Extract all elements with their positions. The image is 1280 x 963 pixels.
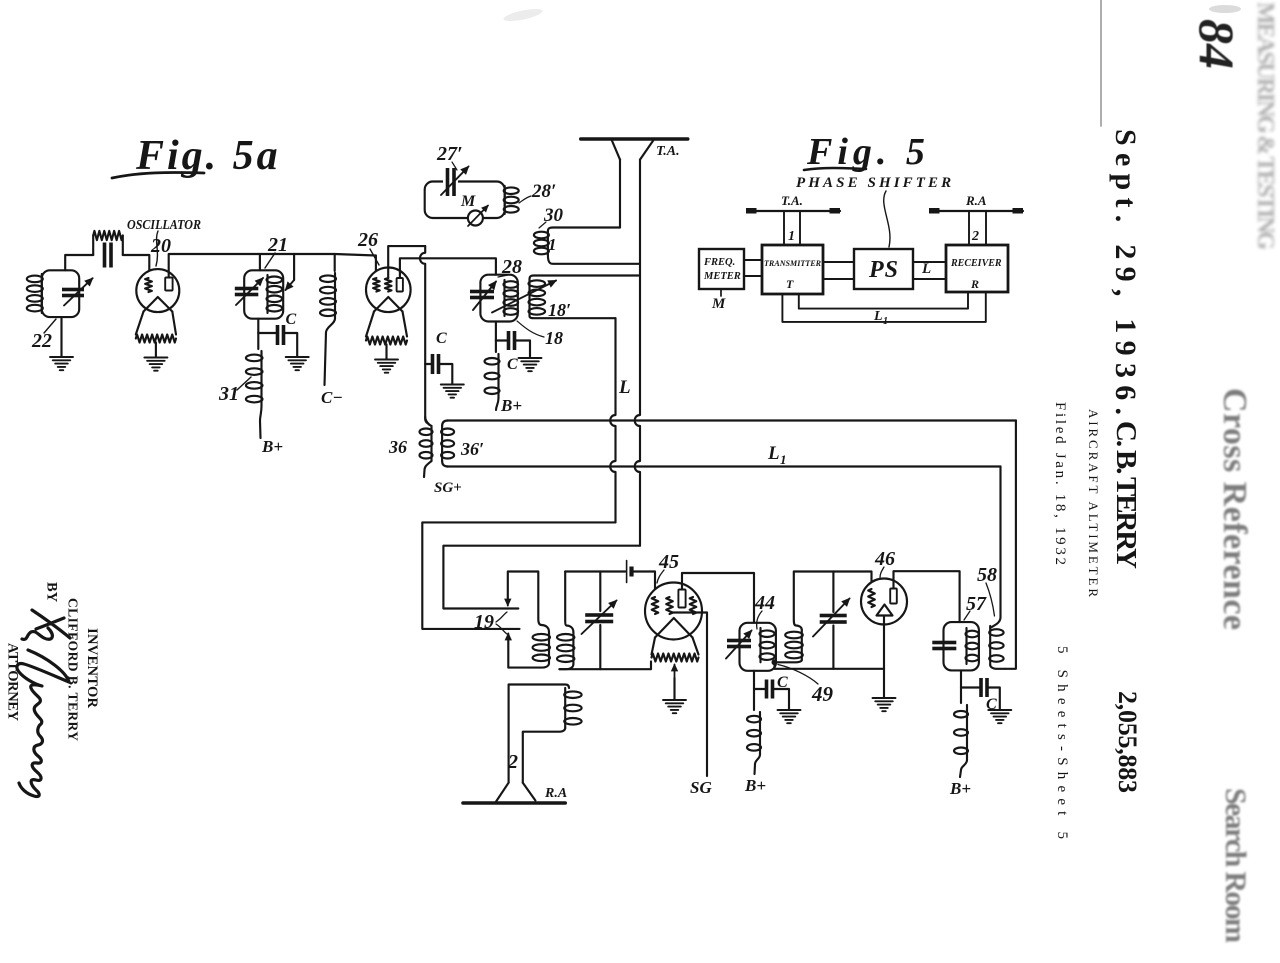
svg-text:L: L	[618, 377, 631, 398]
wire coil57 to B+	[960, 760, 967, 777]
tube 20 filament	[144, 297, 173, 312]
coil 30	[534, 231, 549, 255]
wire coil30 bottom	[548, 255, 640, 264]
wire heater20 to ground	[155, 343, 157, 358]
svg-text:B+: B+	[744, 776, 766, 795]
ground at C28	[519, 358, 542, 371]
wire capC21 to ground	[284, 333, 298, 357]
svg-text:R.A: R.A	[965, 193, 987, 208]
ground at C21	[286, 357, 309, 370]
tuned box 21	[244, 270, 283, 318]
tuning cap stage1 arrow	[582, 601, 617, 635]
label L in Fig5	[921, 261, 931, 277]
label C at 21	[286, 311, 297, 328]
coil 58	[989, 626, 1003, 665]
tube 20 plate	[165, 278, 172, 291]
tube 20 heater leads	[136, 312, 176, 335]
wire capC28 to ground	[515, 341, 531, 358]
transmitter text	[764, 258, 821, 291]
label B+ at 44	[744, 776, 766, 795]
label C at 26	[436, 330, 447, 347]
svg-text:METER: METER	[703, 271, 741, 282]
battery cell	[627, 561, 634, 583]
tuning capacitor stage1	[585, 613, 613, 623]
wire choke top	[294, 254, 335, 271]
text BY	[44, 582, 60, 603]
svg-text:B+: B+	[949, 779, 971, 798]
tube 45 grid 1	[652, 597, 659, 614]
variable capacitor in 44	[727, 639, 751, 649]
svg-text:OSCILLATOR: OSCILLATOR	[127, 217, 201, 232]
leader PHASE SHIFTER	[884, 191, 890, 247]
tuning capacitor stage1 wire	[599, 572, 601, 612]
wire coil2 hook	[509, 685, 569, 783]
svg-text:CLIFFORD B. TERRY: CLIFFORD B. TERRY	[66, 598, 81, 741]
leader 18	[517, 321, 544, 337]
PS box	[854, 249, 913, 289]
tube 45 heater leads	[652, 638, 699, 655]
antenna T.A. bar	[581, 137, 688, 140]
wiper arrow on heater 45	[672, 665, 678, 679]
antenna R.A. bar	[463, 801, 565, 805]
label C-	[321, 388, 343, 407]
wire box44 to B+ coil	[753, 689, 755, 710]
wire screen line down with hop	[420, 246, 425, 364]
svg-text:84: 84	[1189, 19, 1245, 69]
wire grid line to battery	[565, 570, 625, 572]
tube 45 grid 2	[666, 597, 673, 614]
wire tube 20 plate up	[169, 254, 260, 278]
antenna left lead	[619, 160, 621, 228]
leader 57	[964, 611, 970, 620]
tuned box 57	[944, 622, 979, 670]
bus stage2	[775, 668, 885, 670]
stamp Cross Reference	[1216, 388, 1253, 630]
label 44	[754, 592, 775, 614]
svg-text:Search Room: Search Room	[1219, 788, 1252, 943]
capacitor C at 26	[431, 354, 441, 374]
svg-text:C: C	[286, 311, 297, 328]
mini R.A. leads	[969, 211, 986, 245]
title underline Fig 5	[804, 168, 866, 170]
svg-text:2: 2	[507, 751, 518, 773]
svg-text:SG: SG	[690, 778, 712, 797]
label 45	[658, 551, 679, 573]
svg-text:26: 26	[357, 229, 378, 251]
label C at 28	[507, 356, 518, 373]
tube 26 plate	[397, 278, 403, 292]
label 21	[267, 234, 288, 256]
tuning capacitor stage2	[820, 614, 847, 624]
leader 58	[986, 583, 995, 616]
wire gridleak to tube20	[123, 255, 150, 278]
wire coil49 bottom to dot	[775, 660, 802, 662]
coupling arrow 28-18'	[492, 281, 556, 313]
title AIRCRAFT ALTIMETER	[1086, 409, 1101, 597]
tube 26 grid 1	[373, 278, 380, 292]
tube 46 grid	[868, 589, 875, 607]
leader OSCILLATOR	[156, 231, 158, 266]
svg-text:1: 1	[780, 452, 787, 467]
svg-text:1: 1	[883, 316, 888, 327]
wire L1 bus	[447, 465, 1001, 467]
label 58	[977, 564, 997, 586]
receiver text	[950, 258, 1002, 291]
wire T.A. bend to upper stub	[443, 546, 640, 609]
L1 outer loop	[782, 292, 985, 322]
tuning cap stage1 lower wire	[599, 625, 601, 669]
title Fig. 5a	[135, 133, 281, 179]
svg-text:19: 19	[474, 611, 494, 633]
tube 26 heater resistor	[366, 337, 407, 345]
PS text	[868, 257, 899, 283]
svg-text:Filed Jan. 18, 1932: Filed Jan. 18, 1932	[1052, 402, 1068, 565]
wire tube46 cathode	[883, 616, 885, 698]
wire coil2 bottom	[523, 728, 565, 783]
leader 27 prime	[452, 162, 457, 170]
wire tank22 top	[65, 255, 93, 270]
capacitor C at 21	[276, 325, 286, 345]
tube 26 grid 2	[385, 278, 392, 292]
ground below 22	[50, 357, 73, 370]
tube 45 envelope	[645, 583, 702, 640]
coil in 28	[504, 280, 519, 316]
wire heater26 to ground	[385, 345, 387, 360]
variable capacitor arrow 21	[236, 278, 263, 305]
wire coil49 top to tube46	[794, 572, 872, 631]
svg-text:RECEIVER: RECEIVER	[950, 258, 1002, 269]
filed date	[1052, 402, 1068, 565]
wire left long vertical with hops	[610, 318, 615, 522]
coil 36 prime	[441, 426, 454, 461]
choke coil to C-	[320, 273, 336, 319]
wire capC44 to ground	[773, 689, 790, 710]
tube 45 heater resistor	[652, 654, 699, 662]
label L1	[767, 443, 787, 467]
svg-text:18: 18	[545, 328, 563, 348]
svg-text:18′: 18′	[548, 300, 571, 320]
B+ coil at 44	[747, 712, 761, 755]
svg-text:1: 1	[548, 235, 557, 254]
freq meter box	[699, 249, 744, 289]
mini R.A. bar	[931, 210, 1023, 212]
text CLIFFORD B. TERRY	[66, 598, 81, 741]
wire 19 right coil bottom to bus	[559, 664, 573, 669]
wire tube26 plate to box28	[400, 258, 496, 278]
wire tube26 screen up-over	[388, 246, 425, 278]
label 28 prime	[531, 181, 556, 202]
tube 46 plate	[890, 589, 897, 604]
wire wiper to ground 45	[673, 678, 675, 700]
tube 20 envelope	[136, 269, 179, 312]
svg-text:49: 49	[811, 682, 834, 706]
wire coil58 bottom	[990, 665, 1005, 669]
svg-text:30: 30	[543, 205, 564, 226]
svg-text:M: M	[460, 193, 476, 210]
variable capacitor in 22	[62, 288, 84, 298]
grid capacitor	[103, 243, 113, 268]
ground below tube 46	[873, 698, 896, 711]
svg-text:TRANSMITTER: TRANSMITTER	[764, 258, 821, 268]
svg-text:58: 58	[977, 564, 997, 586]
wire box21 bottom	[257, 319, 259, 333]
leader 28	[498, 275, 508, 277]
svg-text:C: C	[507, 356, 518, 373]
tube 45 filament	[655, 618, 693, 638]
label 36 prime	[460, 439, 484, 459]
tube 45 grid 3	[690, 597, 697, 614]
svg-text:FREQ.: FREQ.	[703, 257, 735, 268]
ground below tube 26	[375, 360, 398, 373]
wire tube45 plate to box44	[682, 573, 754, 623]
transformer 19 left coil	[533, 632, 550, 663]
variable capacitor arrow 28	[473, 282, 496, 311]
label SG+	[434, 480, 462, 496]
label B+ at 28	[500, 396, 522, 415]
tube 46 envelope	[861, 579, 907, 625]
meter M	[468, 206, 488, 227]
svg-text:B+: B+	[500, 396, 522, 415]
label L	[618, 377, 631, 398]
stamp Search Room	[1219, 788, 1252, 943]
tuning capacitor stage2 wire	[832, 572, 834, 613]
leader 21	[265, 253, 275, 268]
label OSCILLATOR	[127, 217, 201, 232]
label 49	[811, 682, 834, 706]
variable capacitor in 28	[470, 290, 494, 300]
wire box57 to B+ coil	[960, 688, 962, 704]
svg-text:BY: BY	[44, 582, 60, 603]
title Fig. 5	[806, 131, 930, 173]
wire 22 to ground	[60, 317, 62, 356]
coil 36	[420, 426, 433, 461]
wire tube46 plate to box57	[894, 571, 960, 622]
svg-text:C: C	[436, 330, 447, 347]
tube 20 grid	[145, 278, 152, 292]
leader 49	[778, 665, 818, 685]
L1 inner loop	[799, 292, 968, 309]
tuned box 28	[480, 275, 517, 322]
svg-text:1: 1	[788, 229, 795, 244]
B+ coil at 28	[485, 354, 500, 398]
wires freq meter - transmitter	[744, 260, 762, 276]
svg-text:36: 36	[388, 437, 407, 457]
ground at C57	[988, 710, 1011, 723]
label SG	[690, 778, 712, 797]
wire 19 right coil top	[565, 572, 573, 633]
label 28	[501, 256, 522, 278]
label M in Fig5	[711, 296, 726, 312]
junction dot 44/49	[772, 659, 778, 665]
label M	[460, 193, 476, 210]
ground below tube 20	[144, 358, 167, 371]
transformer 19 right coil	[557, 632, 574, 664]
label 27 prime	[436, 143, 463, 165]
svg-text:Cross Reference: Cross Reference	[1216, 388, 1253, 630]
meter loop	[425, 182, 505, 219]
svg-text:T: T	[786, 277, 794, 291]
wire to capacitor C (44)	[754, 688, 767, 690]
bus stage1	[559, 662, 651, 670]
label C at 44	[777, 674, 788, 691]
wire capC57 to ground	[987, 688, 1000, 710]
wire coil44 to B+	[755, 755, 761, 775]
leader 22	[44, 319, 56, 333]
wire 18' bottom lead	[530, 316, 616, 318]
wire box28 bottom	[495, 322, 497, 341]
coil 18 prime	[529, 279, 546, 316]
label 22	[31, 330, 52, 352]
wire battery to tube45 grid	[634, 572, 655, 598]
label R.A	[544, 786, 567, 801]
capacitor 27' arrow	[441, 167, 469, 196]
label 46	[874, 548, 895, 570]
svg-text:SG+: SG+	[434, 480, 462, 496]
tank circuit box 22	[42, 270, 79, 317]
antenna R.A. funnel	[496, 783, 535, 802]
freq meter text	[703, 257, 741, 282]
variable capacitor in 21	[235, 287, 258, 297]
freq meter M lead	[720, 289, 722, 296]
patent number 2,055,883	[1113, 691, 1142, 793]
svg-text:2: 2	[971, 229, 979, 244]
label 2 in Fig5	[971, 229, 979, 244]
wire L bend to lower stub	[422, 522, 615, 629]
title PHASE SHIFTER	[796, 175, 954, 191]
name C. B. TERRY	[1110, 421, 1142, 569]
label 30	[543, 205, 564, 226]
signature H S Grover	[17, 610, 70, 797]
wire 18 prime top lead	[530, 276, 641, 280]
wires PS - receiver	[913, 262, 946, 279]
label C at 57	[986, 696, 997, 713]
leader 28 prime	[519, 196, 531, 203]
variable capacitor arrow 22	[64, 278, 93, 305]
date Sept. 29, 1936.	[1109, 129, 1142, 415]
label T.A.	[656, 144, 680, 159]
ground at C44	[778, 710, 801, 723]
wire box57 bottom	[960, 670, 962, 687]
label 1 in Fig5	[788, 229, 795, 244]
feedback tap arrow into coil 21	[286, 254, 295, 290]
leader 19 bracket	[496, 612, 507, 634]
svg-text:MEASURING & TESTING: MEASURING & TESTING	[1252, 2, 1278, 250]
wire to capacitor C (57)	[961, 686, 981, 688]
wire coil36' top	[442, 421, 448, 427]
leader 30	[539, 222, 546, 228]
scan artifact line	[1100, 0, 1102, 126]
mini T.A. end insulators	[746, 208, 840, 214]
svg-text:M: M	[711, 296, 726, 312]
receiver box	[946, 245, 1008, 292]
tuning cap stage2 lower wire	[832, 626, 834, 669]
wire coil58 top	[990, 617, 1000, 628]
svg-text:27′: 27′	[436, 143, 463, 165]
tuning cap stage2 arrow	[813, 599, 850, 637]
wire to capacitor C (26)	[425, 363, 432, 365]
coil 2	[564, 688, 581, 728]
wire choke to C-	[325, 319, 336, 386]
B+ coil at 57	[954, 705, 968, 760]
label 18 prime	[548, 300, 571, 320]
label 26	[357, 229, 378, 251]
wire to capacitor C (28)	[496, 339, 509, 341]
wire coil31 to B+	[260, 406, 262, 438]
label 36	[388, 437, 407, 457]
tube 26 filament	[374, 297, 403, 312]
smudge near 84	[1209, 5, 1241, 13]
coil 28 prime	[504, 186, 519, 214]
mini T.A. label	[781, 193, 803, 208]
mini T.A. leads	[784, 211, 800, 245]
svg-text:36′: 36′	[460, 439, 484, 459]
label L1 in Fig5	[873, 309, 888, 327]
tube 45 plate	[678, 590, 685, 608]
antenna right lead with hops	[635, 160, 640, 546]
wire main to tube26 grid	[335, 254, 376, 278]
wire 19 upper tap	[505, 572, 549, 633]
wire box44 bottom	[753, 671, 755, 689]
label 57	[966, 593, 987, 615]
title underline Fig 5a	[112, 173, 204, 178]
text ATTORNEY	[5, 643, 21, 722]
wire box21 to coil 31	[257, 333, 259, 349]
handwritten 84	[1189, 19, 1245, 69]
wire coil36' bottom	[442, 461, 448, 467]
capacitor C at 44	[765, 680, 775, 699]
wire L1 right vertical	[999, 467, 1001, 618]
leader 26	[370, 249, 379, 265]
wire plate line to box21	[260, 254, 294, 270]
antenna funnel	[612, 141, 653, 160]
svg-text:INVENTOR: INVENTOR	[84, 628, 100, 709]
svg-text:T.A.: T.A.	[781, 193, 803, 208]
svg-text:R.A: R.A	[544, 786, 567, 801]
label B+ at 31	[261, 437, 283, 456]
wire L right vertical	[1005, 421, 1016, 669]
svg-text:22: 22	[31, 330, 52, 352]
label 20	[150, 235, 171, 257]
stamp clipped right edge	[1252, 2, 1278, 250]
label 31	[218, 383, 239, 405]
wire coil30 top	[548, 228, 620, 232]
text INVENTOR	[84, 628, 100, 709]
wire 19 lower tap	[505, 634, 549, 668]
grid resistor	[93, 231, 123, 255]
tuned box 44	[740, 623, 776, 671]
white gap for cap 27'	[443, 179, 458, 185]
svg-text:C. B. TERRY: C. B. TERRY	[1110, 421, 1142, 569]
svg-text:2,055,883: 2,055,883	[1113, 691, 1142, 793]
smudge top centre	[503, 6, 544, 23]
wire to capacitor C (21)	[258, 332, 277, 334]
svg-text:21: 21	[267, 234, 288, 256]
svg-text:Fig. 5: Fig. 5	[806, 131, 930, 173]
svg-text:C−: C−	[321, 388, 343, 407]
label B+ at 57	[949, 779, 971, 798]
svg-text:31: 31	[218, 383, 239, 405]
mini R.A. label	[965, 193, 987, 208]
tube 26 heater leads	[366, 312, 407, 337]
capacitor C at 57	[979, 678, 989, 697]
leader 46	[880, 567, 884, 578]
wire tube45 screen to SG	[671, 613, 707, 777]
coil 22	[27, 274, 43, 313]
svg-text:45: 45	[658, 551, 679, 573]
coil in 57	[966, 628, 979, 664]
ground below tube 45	[663, 700, 686, 713]
coil in 44	[760, 628, 775, 662]
